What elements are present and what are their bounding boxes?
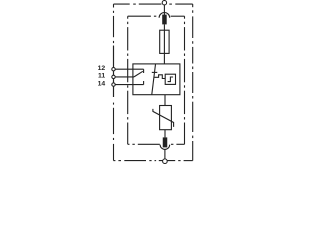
svg-text:14: 14 [98,80,106,87]
svg-text:12: 12 [98,65,106,72]
svg-text:11: 11 [98,73,105,80]
